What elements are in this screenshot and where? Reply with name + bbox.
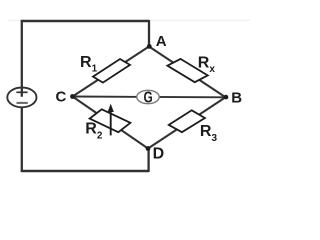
node D junction dot xyxy=(146,146,151,151)
galvanometer G ellipse xyxy=(137,90,159,103)
R2 wiper arrow shaft xyxy=(110,111,112,136)
wire: galvanometer branch C to B xyxy=(73,96,226,99)
wire: bottom horizontal xyxy=(21,170,149,172)
svg-text:B: B xyxy=(231,90,242,107)
resistor R3 body xyxy=(169,110,205,132)
resistor R2 body (variable) xyxy=(90,109,131,132)
faint horizontal rule xyxy=(8,19,250,21)
node C junction dot xyxy=(70,94,75,99)
wire: arm D to B xyxy=(148,97,226,148)
battery source V1 ellipse xyxy=(7,88,36,108)
resistor Rx body xyxy=(167,59,207,82)
wire: left vertical lower xyxy=(21,107,23,173)
wire: arm C to D xyxy=(73,97,149,149)
svg-text:D: D xyxy=(153,145,165,162)
wire: arm A to C xyxy=(73,47,150,97)
svg-text:A: A xyxy=(156,33,167,50)
wire: stub from node D down to bottom xyxy=(147,149,149,173)
wire: arm A to B xyxy=(149,47,226,98)
wire: left vertical upper (through battery top, forms + stem) xyxy=(21,20,23,97)
battery plus sign crossbar xyxy=(16,91,27,93)
node A junction dot xyxy=(147,44,152,49)
battery minus bar xyxy=(17,102,28,104)
resistor R1 body xyxy=(93,59,130,83)
wire: top horizontal from left corner to A stub xyxy=(21,20,149,22)
R2 wiper arrow head xyxy=(108,104,114,112)
svg-text:C: C xyxy=(56,89,67,106)
svg-text:G: G xyxy=(143,88,152,106)
wire: stub down to node A xyxy=(148,20,150,47)
node B junction dot xyxy=(224,95,229,100)
